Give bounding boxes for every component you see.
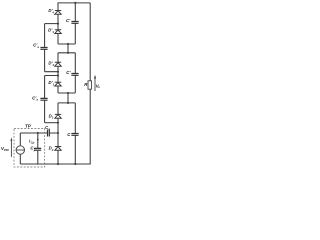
svg-text:PRI: PRI [4, 148, 9, 152]
svg-text:C′: C′ [66, 18, 71, 23]
svg-text:a: a [48, 127, 50, 131]
svg-text:a: a [36, 97, 38, 101]
svg-text:TP: TP [25, 124, 31, 129]
svg-text:C′: C′ [66, 70, 71, 75]
svg-text:C: C [67, 132, 71, 137]
svg-text:p: p [33, 148, 36, 152]
svg-text:2: 2 [51, 148, 54, 152]
svg-text:a: a [37, 45, 39, 49]
svg-text:Cp: Cp [31, 140, 35, 144]
svg-text:4: 4 [51, 11, 54, 15]
svg-text:1: 1 [52, 116, 54, 120]
svg-text:1: 1 [53, 82, 55, 86]
svg-text:2: 2 [52, 63, 55, 67]
svg-text:3: 3 [52, 30, 54, 34]
svg-text:o: o [98, 85, 100, 89]
